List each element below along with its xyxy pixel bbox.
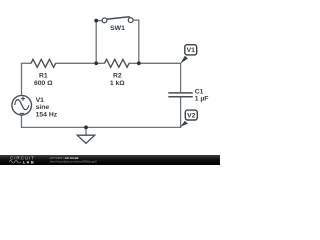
svg-text:http://circuitlab.com/cbnw3936: http://circuitlab.com/cbnw39362yup5 xyxy=(50,159,97,163)
logo sine squiggle xyxy=(9,161,20,164)
resistor R2 zigzag xyxy=(105,59,130,67)
wire switch right stub xyxy=(133,19,139,21)
wire between R2 and right corner xyxy=(129,62,181,64)
wire top horizontal left xyxy=(21,62,32,64)
output flag V1 pointer xyxy=(180,56,188,64)
wire right vertical below C1 xyxy=(180,97,182,128)
switch SW1 lever xyxy=(106,17,130,20)
output flag V2 pointer xyxy=(180,121,188,127)
output flag V2 box xyxy=(185,110,197,120)
svg-text:LAB: LAB xyxy=(23,159,35,164)
svg-text:R2: R2 xyxy=(113,72,122,79)
ground triangle xyxy=(77,135,95,143)
voltage source sine symbol xyxy=(15,99,30,109)
svg-text:sine: sine xyxy=(36,104,50,111)
voltage source minus sign xyxy=(20,112,25,114)
output flag V1 box xyxy=(185,45,197,55)
voltage source V1 circle xyxy=(12,95,32,115)
svg-text:C1: C1 xyxy=(195,88,204,95)
wire switch left stub xyxy=(96,20,102,22)
capacitor C1 plates xyxy=(168,92,193,94)
node junction dot ground xyxy=(84,126,88,130)
resistor R1 zigzag xyxy=(31,59,56,67)
wire between R1 and R2 xyxy=(55,62,105,64)
switch SW1 left post circle xyxy=(102,18,107,23)
wire bottom horizontal xyxy=(21,126,181,128)
wire top-left vertical xyxy=(21,63,23,95)
switch SW1 right post circle xyxy=(128,18,133,23)
svg-text:154 Hz: 154 Hz xyxy=(36,112,58,119)
svg-text:1 µF: 1 µF xyxy=(195,96,209,103)
wire right vertical above C1 xyxy=(180,63,182,92)
svg-text:600 Ω: 600 Ω xyxy=(34,80,53,87)
wire switch right riser xyxy=(138,20,140,63)
voltage source plus sign xyxy=(21,98,25,100)
wire switch left riser xyxy=(95,21,97,64)
node junction dot at switch left xyxy=(94,19,98,23)
svg-text:V1: V1 xyxy=(187,47,196,54)
svg-text:SW1: SW1 xyxy=(110,25,125,32)
watermark banner xyxy=(0,155,220,165)
wire bottom-left vertical xyxy=(21,115,23,128)
svg-text:V2: V2 xyxy=(187,113,196,120)
node junction dot R2-right xyxy=(137,61,141,65)
node junction dot R1-R2 xyxy=(94,61,98,65)
ground stem xyxy=(85,127,87,135)
svg-text:V1: V1 xyxy=(36,97,45,104)
svg-text:1 kΩ: 1 kΩ xyxy=(110,80,125,87)
svg-text:R1: R1 xyxy=(39,72,48,79)
